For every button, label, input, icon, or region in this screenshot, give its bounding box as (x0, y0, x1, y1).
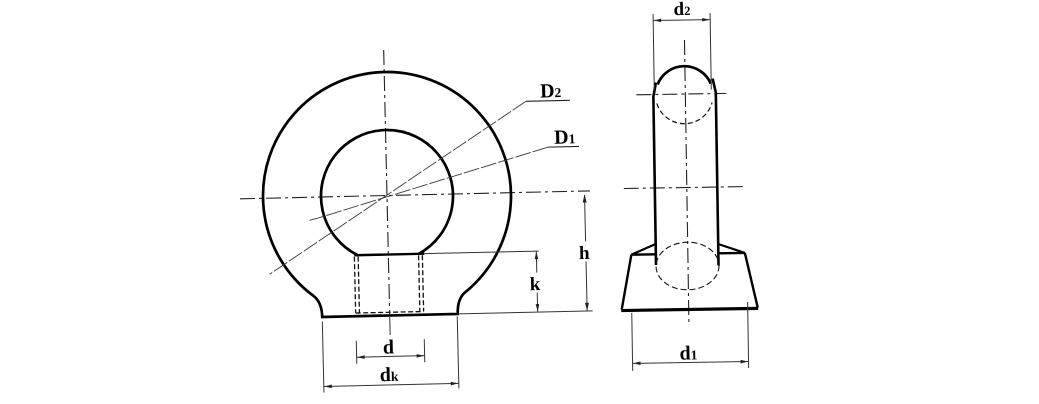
shank left side (653, 82, 659, 265)
side view group (616, 0, 759, 371)
extension line base bottom (458, 311, 593, 314)
boss top edge (354, 254, 424, 256)
base bottom edge (621, 308, 758, 310)
tube circle centerline (636, 93, 726, 94)
arrow d left (357, 355, 365, 359)
vertical centerline (384, 50, 390, 316)
arrow dk right (451, 382, 459, 386)
hidden thread line left inner (358, 257, 359, 313)
extension line dk right (457, 316, 459, 388)
side horizontal centerline (624, 187, 746, 189)
tube bottom arc hidden (657, 103, 713, 125)
dimension line dk (324, 383, 459, 386)
arrow k top (535, 252, 539, 260)
base shoulder diagonal left (631, 244, 656, 255)
base top edge right (718, 252, 744, 255)
arrow d1 left (633, 361, 641, 365)
arrow d2 right (702, 18, 710, 22)
dimension line k (536, 251, 537, 312)
extension line boss top (424, 251, 538, 254)
hidden thread bottom (356, 311, 424, 313)
base left side (621, 255, 632, 310)
label D1 underline (548, 145, 579, 148)
base top edge left (631, 253, 655, 256)
arrow d2 left (654, 19, 662, 23)
outer body profile (260, 69, 513, 318)
hidden thread line left outer (354, 257, 355, 313)
label D2 underline (526, 99, 570, 102)
horizontal centerline (240, 191, 590, 199)
shank right side (713, 79, 719, 266)
arrow h bottom (585, 303, 589, 311)
arrow d1 right (741, 360, 749, 364)
svg-text:d1: d1 (679, 342, 697, 364)
base shoulder diagonal right (718, 244, 745, 254)
svg-text:d: d (383, 336, 395, 358)
leader line D2 (266, 101, 530, 274)
base right side (745, 253, 758, 308)
extension line d left (355, 341, 358, 364)
front view group (237, 45, 595, 394)
label h knockout (578, 241, 591, 261)
inner eye circle arc (320, 129, 455, 256)
svg-text:d2: d2 (673, 0, 690, 20)
svg-text:h: h (579, 243, 590, 264)
dimension line d1 (633, 362, 749, 364)
svg-text:D2: D2 (540, 80, 562, 102)
arrow k bottom (536, 304, 540, 312)
svg-text:k: k (530, 274, 541, 295)
tube top arc solid (657, 66, 710, 85)
svg-text:D1: D1 (554, 126, 576, 148)
extension line dk left (322, 321, 324, 392)
dimension line d (357, 356, 425, 358)
leader line D1 (308, 147, 549, 220)
svg-text:dk: dk (379, 364, 399, 386)
arrow d right (417, 354, 425, 358)
hidden thread line right outer (422, 255, 423, 311)
extension line d2 left (653, 14, 654, 90)
extension line d1 right (748, 302, 749, 368)
extension line d right (423, 339, 426, 362)
arrow h top (583, 194, 587, 202)
hidden thread line right inner (419, 255, 420, 311)
label k knockout (529, 273, 542, 293)
centerline extension below base (389, 317, 391, 335)
dimension line d2 (653, 19, 710, 22)
dimension line h (585, 195, 588, 310)
hidden tube bottom ellipse (656, 242, 720, 291)
extension line d2 right (710, 13, 711, 89)
extension line d1 left (631, 313, 634, 371)
side vertical centerline (684, 40, 688, 325)
arrow dk left (324, 385, 332, 389)
